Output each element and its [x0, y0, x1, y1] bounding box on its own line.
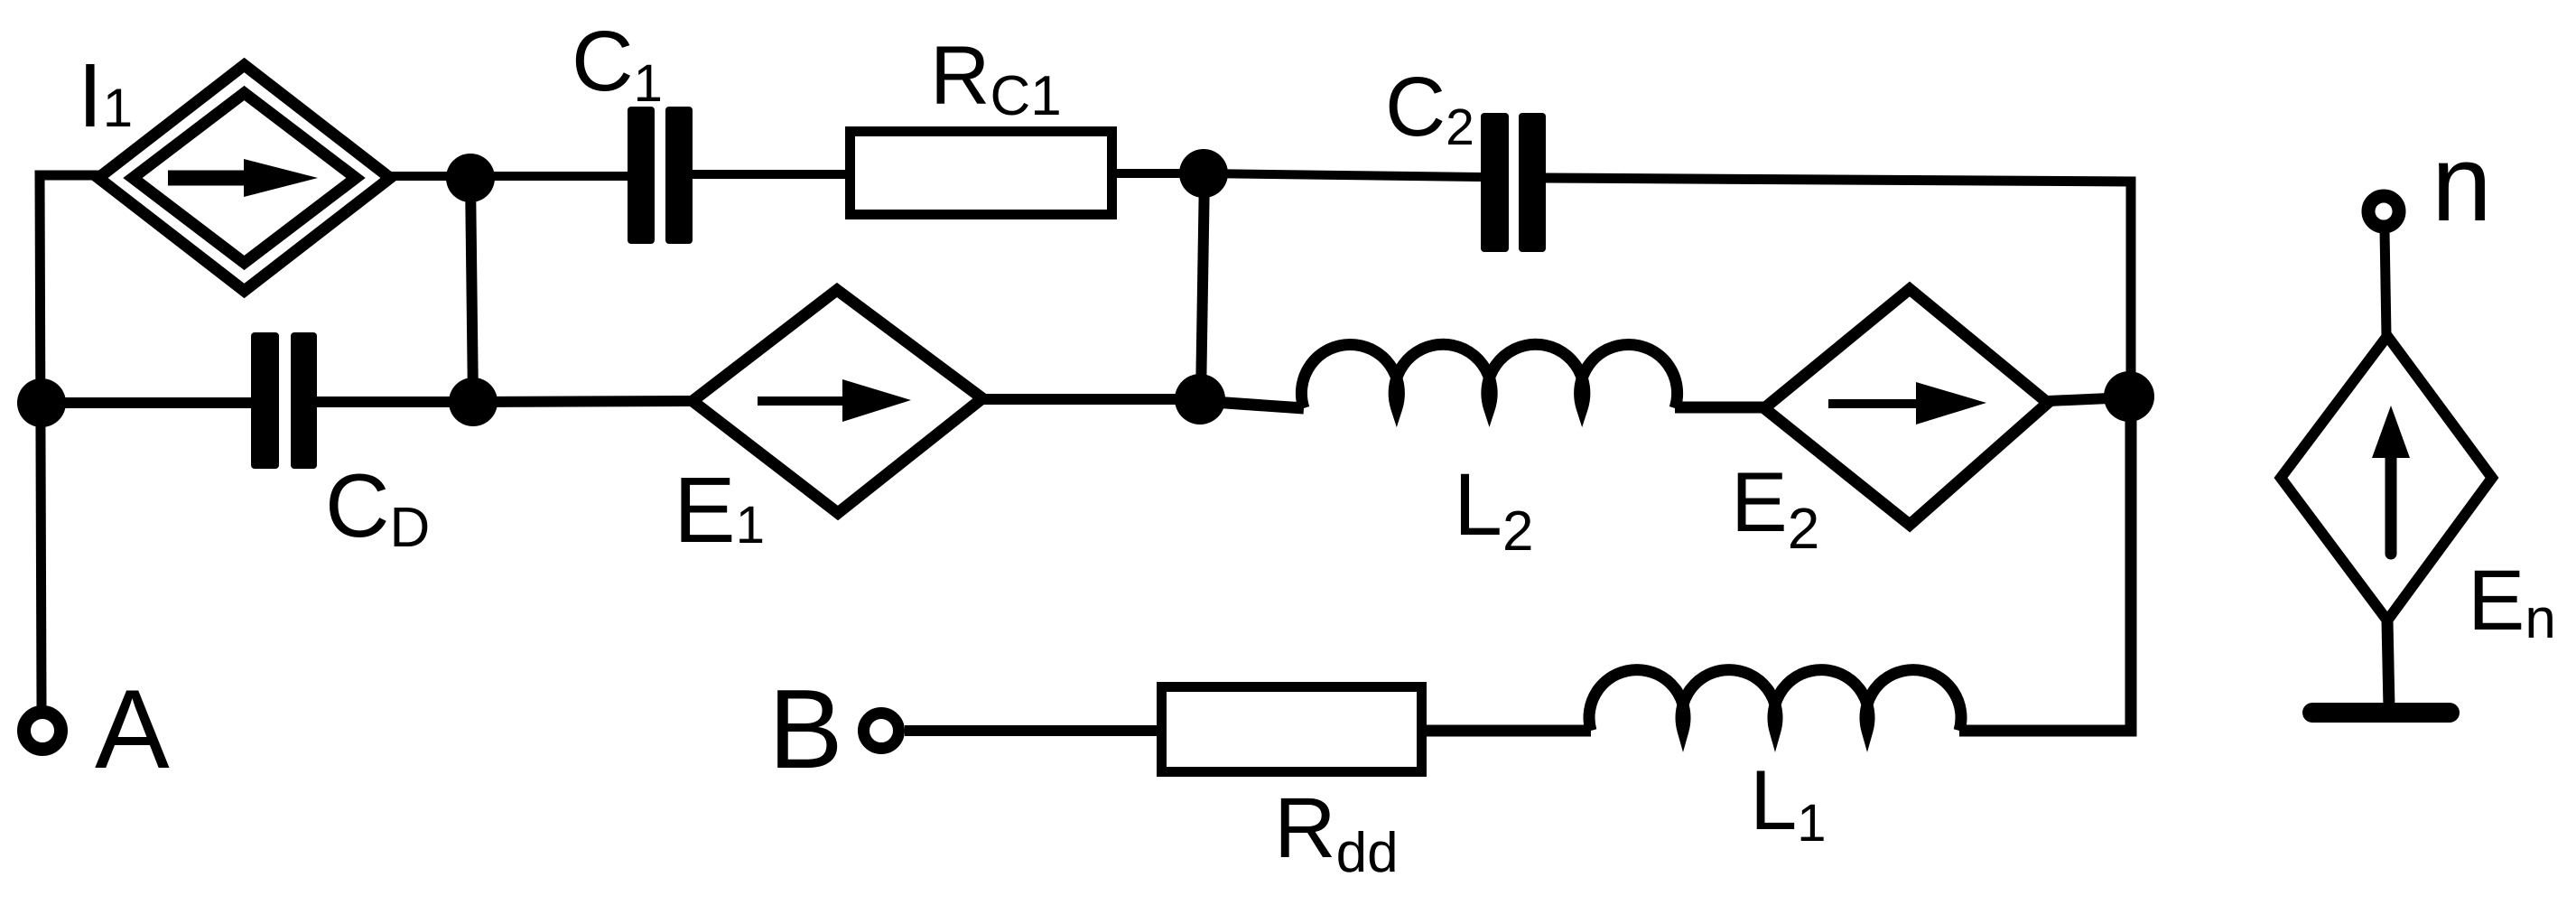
svg-text:E1: E1 [674, 458, 765, 562]
ground [2312, 703, 2450, 723]
svg-text:E2: E2 [1731, 454, 1819, 561]
wire [693, 170, 845, 179]
wire [1117, 169, 1204, 178]
wire [1546, 178, 2131, 398]
wire [1959, 398, 2131, 731]
controlled source E1 [693, 290, 982, 513]
wire [982, 394, 1200, 405]
svg-text:L1: L1 [1750, 752, 1827, 853]
capacitor C2 [1481, 113, 1546, 252]
svg-text:CD: CD [325, 455, 430, 559]
resistor RC1 [851, 132, 1112, 215]
wire [2387, 620, 2389, 708]
node junction [1179, 149, 1228, 198]
wire [40, 175, 99, 707]
capacitor CD [251, 332, 317, 469]
svg-text:En: En [2468, 553, 2556, 650]
svg-text:I1: I1 [78, 45, 133, 146]
svg-text:B: B [768, 667, 843, 792]
terminal B [864, 714, 899, 749]
inductor L1 [1589, 670, 1961, 731]
svg-text:RC1: RC1 [930, 30, 1062, 127]
wire [1427, 725, 1591, 737]
node junction [1175, 374, 1225, 425]
wire [1204, 173, 1481, 177]
wire [1201, 173, 1204, 399]
wire [1675, 402, 1764, 414]
svg-text:n: n [2432, 123, 2492, 244]
terminal A [24, 713, 61, 750]
wire [2385, 229, 2386, 336]
wire [317, 397, 473, 407]
node junction [2104, 371, 2154, 422]
svg-text:A: A [95, 667, 170, 792]
svg-text:C1: C1 [572, 14, 663, 113]
wire [473, 401, 693, 402]
svg-text:C2: C2 [1385, 60, 1474, 156]
wire [1200, 401, 1304, 408]
wire [470, 178, 473, 402]
svg-text:L2: L2 [1454, 455, 1533, 563]
resistor Rdd [1162, 687, 1422, 772]
terminal n [2368, 196, 2399, 227]
wire [388, 172, 628, 181]
controlled source E2 [1764, 289, 2048, 525]
current source I1 [98, 65, 390, 291]
wire [905, 725, 1157, 736]
node junction [446, 154, 495, 202]
wire [40, 397, 251, 408]
voltage source En [2281, 336, 2492, 620]
svg-text:Rdd: Rdd [1274, 780, 1399, 884]
capacitor C1 [628, 107, 693, 244]
node junction [17, 378, 66, 427]
wire [2048, 397, 2129, 401]
node junction [449, 378, 498, 426]
inductor L2 [1301, 344, 1677, 408]
